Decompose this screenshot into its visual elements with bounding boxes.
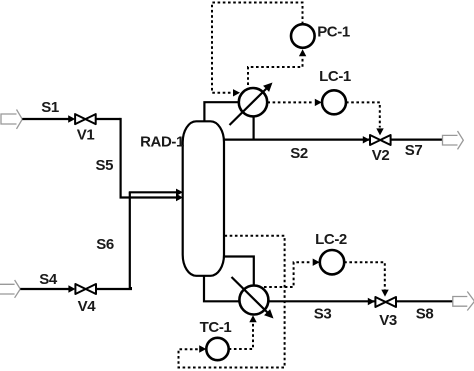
arrowhead S4 into V4 xyxy=(68,285,75,292)
valve V1 xyxy=(75,114,96,124)
arrowhead S2 into V2 xyxy=(363,136,370,143)
wire S6 feed into column xyxy=(129,191,176,193)
condenser duty diagonal arrow xyxy=(230,88,268,125)
valve V2 xyxy=(370,135,391,145)
condenser HX circle xyxy=(239,88,267,116)
svg-text:V2: V2 xyxy=(372,147,390,164)
svg-text:V1: V1 xyxy=(77,127,95,144)
wire V1 to S5 corner xyxy=(96,118,121,120)
signal PC-1 to condenser xyxy=(212,3,303,93)
arrowhead into reboiler bottom xyxy=(249,315,256,322)
signal column to TC-1 loop xyxy=(179,236,285,368)
svg-text:S8: S8 xyxy=(416,306,434,323)
signal condenser to PC-1 xyxy=(248,58,303,85)
wire S7 xyxy=(391,139,443,141)
wire column top to condenser xyxy=(204,102,240,121)
wire S8 xyxy=(396,300,453,302)
wire bottoms from column to reboiler xyxy=(204,276,245,302)
arrowhead S1 into V1 xyxy=(68,115,75,122)
arrowhead into PC-1 bottom xyxy=(299,49,306,56)
arrowhead into V2 top xyxy=(376,128,383,135)
arrowhead S5 feed xyxy=(176,194,183,201)
svg-text:V4: V4 xyxy=(78,298,97,315)
arrowhead S6 feed xyxy=(176,189,183,196)
wire column to reboiler vapor return xyxy=(224,257,254,289)
valve V3 xyxy=(375,297,396,307)
signal TC-1 to reboiler xyxy=(229,323,253,349)
svg-text:PC-1: PC-1 xyxy=(317,23,350,40)
wire S5 feed into column xyxy=(120,196,177,198)
arrowhead into LC-2 xyxy=(313,259,320,266)
svg-text:S5: S5 xyxy=(96,157,114,174)
wire S1 xyxy=(22,118,70,120)
signal LC-1 to V2 xyxy=(346,102,380,127)
arrowhead into condenser left xyxy=(233,89,240,96)
signal reboiler to LC-2 xyxy=(264,262,311,287)
wire V4 to S6 corner xyxy=(96,287,131,289)
controller LC-1 xyxy=(322,90,346,114)
reboiler duty diagonal arrow xyxy=(232,277,268,313)
valve V4 xyxy=(75,284,96,294)
arrowhead into V3 top xyxy=(381,290,388,297)
arrowhead S3 into V3 xyxy=(368,298,375,305)
controller TC-1 xyxy=(206,338,228,360)
wire S6 vertical xyxy=(129,192,131,289)
stream output arrow S8 xyxy=(453,292,474,311)
controller PC-1 xyxy=(291,24,315,48)
stream input arrow S1 xyxy=(1,110,22,129)
svg-text:S6: S6 xyxy=(96,236,114,253)
svg-text:S2: S2 xyxy=(290,145,308,162)
reboiler HX circle xyxy=(239,286,268,315)
svg-text:S1: S1 xyxy=(41,99,59,116)
arrowhead into LC-1 xyxy=(315,99,322,106)
svg-text:LC-2: LC-2 xyxy=(315,231,347,248)
controller LC-2 xyxy=(320,250,344,274)
wire S2 reflux/distillate xyxy=(224,139,370,141)
wire S5 vertical xyxy=(119,118,121,198)
wire S4 xyxy=(20,288,70,290)
svg-text:S4: S4 xyxy=(39,271,58,288)
wire S3 through reboiler xyxy=(245,300,375,302)
svg-text:LC-1: LC-1 xyxy=(319,68,351,85)
signal condenser to LC-1 xyxy=(267,101,313,103)
svg-text:S3: S3 xyxy=(314,306,332,323)
arrowhead into TC-1 xyxy=(199,345,206,352)
wire condenser outlet down to S2 xyxy=(253,110,255,140)
svg-text:V3: V3 xyxy=(379,312,397,329)
signal LC-2 to V3 xyxy=(344,262,385,289)
svg-text:TC-1: TC-1 xyxy=(200,319,232,336)
stream input arrow S4 xyxy=(0,280,20,298)
stream output arrow S7 xyxy=(443,131,464,149)
svg-text:RAD-1: RAD-1 xyxy=(140,134,184,151)
column RAD-1 vessel xyxy=(183,121,224,275)
svg-text:S7: S7 xyxy=(405,142,423,159)
